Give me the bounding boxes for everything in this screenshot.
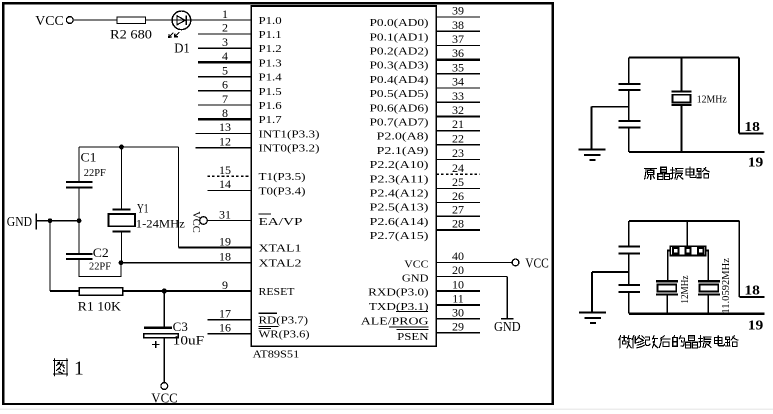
svg-text:EA/VP: EA/VP [259, 216, 303, 228]
svg-text:5: 5 [222, 63, 228, 77]
svg-text:XTAL2: XTAL2 [259, 257, 302, 269]
svg-text:P0.0(AD0): P0.0(AD0) [370, 17, 429, 29]
svg-text:11: 11 [452, 292, 464, 306]
svg-text:29: 29 [452, 319, 464, 333]
svg-text:C2: C2 [93, 246, 109, 260]
svg-text:22PF: 22PF [84, 168, 106, 179]
svg-text:P2.5(A13): P2.5(A13) [370, 202, 429, 214]
svg-text:19: 19 [748, 156, 764, 171]
svg-text:P1.6: P1.6 [259, 100, 283, 112]
svg-text:16: 16 [219, 321, 231, 335]
svg-text:23: 23 [452, 146, 464, 160]
svg-text:PSEN: PSEN [397, 331, 428, 343]
svg-text:P1.4: P1.4 [259, 72, 283, 84]
svg-text:AT89S51: AT89S51 [253, 349, 300, 361]
svg-text:WR(P3.6): WR(P3.6) [259, 329, 310, 341]
svg-text:22: 22 [452, 131, 464, 145]
svg-text:18: 18 [744, 120, 760, 135]
svg-text:P0.2(AD2): P0.2(AD2) [370, 46, 429, 58]
svg-text:P2.6(A14): P2.6(A14) [370, 216, 429, 228]
svg-text:Y1: Y1 [137, 202, 149, 216]
svg-text:P0.3(AD3): P0.3(AD3) [370, 60, 429, 72]
svg-text:4: 4 [222, 49, 228, 63]
svg-text:35: 35 [452, 60, 464, 74]
svg-text:D1: D1 [174, 40, 190, 55]
svg-text:32: 32 [452, 103, 464, 117]
svg-text:T1(P3.5): T1(P3.5) [259, 171, 306, 183]
svg-text:7: 7 [222, 92, 228, 106]
svg-text:C1: C1 [81, 151, 97, 165]
svg-text:10uF: 10uF [173, 334, 204, 348]
svg-text:8: 8 [222, 106, 228, 120]
svg-text:12MHz: 12MHz [697, 95, 727, 106]
svg-text:P1.1: P1.1 [259, 29, 282, 41]
svg-text:27: 27 [452, 203, 464, 217]
svg-text:INT1(P3.3): INT1(P3.3) [259, 128, 320, 140]
svg-text:36: 36 [452, 46, 464, 60]
svg-text:P1.3: P1.3 [259, 57, 283, 69]
svg-text:P2.7(A15): P2.7(A15) [370, 230, 429, 242]
svg-text:19: 19 [748, 319, 764, 334]
svg-text:1: 1 [74, 359, 84, 380]
svg-text:P0.4(AD4): P0.4(AD4) [370, 74, 429, 86]
svg-text:22PF: 22PF [89, 261, 111, 272]
svg-text:VCC: VCC [35, 13, 64, 28]
svg-text:P1.7: P1.7 [259, 114, 283, 126]
svg-text:P2.2(A10): P2.2(A10) [370, 159, 429, 171]
svg-text:VCC: VCC [404, 258, 428, 270]
svg-text:INT0(P3.2): INT0(P3.2) [259, 143, 320, 155]
svg-text:38: 38 [452, 18, 464, 32]
svg-text:1-24MHz: 1-24MHz [136, 218, 185, 230]
svg-text:31: 31 [219, 207, 231, 221]
svg-text:11.0592MHz: 11.0592MHz [721, 258, 732, 314]
svg-text:2: 2 [222, 21, 228, 35]
svg-text:24: 24 [452, 161, 464, 175]
svg-text:33: 33 [452, 89, 464, 103]
svg-text:P2.0(A8): P2.0(A8) [377, 131, 429, 143]
svg-text:30: 30 [452, 305, 464, 319]
svg-text:GND: GND [402, 272, 429, 284]
svg-text:19: 19 [219, 234, 231, 248]
svg-text:RESET: RESET [259, 286, 295, 298]
svg-text:P1.5: P1.5 [259, 86, 283, 98]
svg-text:3: 3 [222, 35, 228, 49]
svg-text:17: 17 [219, 307, 231, 321]
svg-text:21: 21 [452, 117, 464, 131]
svg-text:10: 10 [452, 278, 464, 292]
svg-text:37: 37 [452, 32, 464, 46]
svg-text:18: 18 [744, 283, 760, 298]
svg-text:P1.0: P1.0 [259, 15, 283, 27]
svg-text:14: 14 [219, 177, 231, 191]
svg-text:C3: C3 [173, 320, 188, 334]
svg-text:VCC: VCC [525, 255, 549, 270]
svg-text:P0.6(AD6): P0.6(AD6) [370, 102, 429, 114]
svg-text:VCC: VCC [151, 390, 177, 405]
svg-text:12MHz: 12MHz [680, 275, 691, 304]
svg-text:RD(P3.7): RD(P3.7) [259, 314, 309, 326]
svg-text:28: 28 [452, 217, 464, 231]
svg-text:P1.2: P1.2 [259, 43, 282, 55]
svg-text:6: 6 [222, 78, 228, 92]
svg-text:39: 39 [452, 4, 464, 18]
svg-text:RXD(P3.0): RXD(P3.0) [368, 286, 429, 298]
svg-text:9: 9 [222, 278, 228, 292]
svg-text:P0.1(AD1): P0.1(AD1) [370, 31, 429, 43]
svg-text:25: 25 [452, 175, 464, 189]
svg-text:T0(P3.4): T0(P3.4) [259, 185, 306, 197]
svg-text:15: 15 [219, 163, 231, 177]
svg-text:34: 34 [452, 75, 464, 89]
svg-text:20: 20 [452, 263, 464, 277]
svg-text:40: 40 [452, 249, 464, 263]
svg-text:18: 18 [219, 250, 231, 264]
svg-text:26: 26 [452, 189, 464, 203]
svg-text:13: 13 [219, 120, 231, 134]
svg-text:12: 12 [219, 134, 231, 148]
svg-text:1: 1 [222, 7, 228, 21]
svg-text:R2 680: R2 680 [110, 28, 152, 42]
svg-text:XTAL1: XTAL1 [259, 242, 302, 254]
svg-text:ALE/PROG: ALE/PROG [361, 315, 429, 327]
svg-text:P2.3(A11): P2.3(A11) [370, 173, 429, 185]
svg-text:P2.4(A12): P2.4(A12) [370, 188, 429, 200]
svg-text:P0.5(AD5): P0.5(AD5) [370, 88, 429, 100]
svg-text:R1 10K: R1 10K [78, 299, 121, 313]
svg-text:P2.1(A9): P2.1(A9) [377, 145, 429, 157]
svg-text:P0.7(AD7): P0.7(AD7) [370, 117, 429, 129]
svg-text:GND: GND [7, 214, 32, 229]
svg-text:GND: GND [494, 319, 521, 334]
